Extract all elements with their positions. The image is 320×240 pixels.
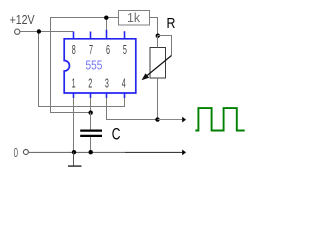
wire 1k right to pot junction [150, 18, 158, 36]
0V arrowhead [182, 150, 186, 156]
junction at pin 6 column [104, 16, 108, 20]
pin 3 stub [106, 93, 108, 98]
svg-text:+12V: +12V [10, 13, 36, 27]
variable resistor R body [150, 48, 166, 79]
pin 7 stub [90, 32, 92, 39]
wire +12V rail to pin 8 [20, 31, 74, 33]
wire pin 1 to 0V rail [73, 98, 75, 153]
output arrowhead [182, 117, 186, 123]
capacitor C bottom plate [80, 135, 102, 137]
svg-text:0: 0 [14, 145, 18, 160]
wire junction column down to pin 6 [106, 18, 108, 31]
junction cap bottom rail [89, 150, 93, 154]
svg-text:C: C [112, 125, 121, 143]
pin 1 stub [73, 93, 75, 98]
junction pot top [156, 34, 160, 38]
svg-text:6: 6 [106, 42, 110, 57]
capacitor C top plate [80, 129, 102, 131]
waveform square wave [195, 108, 244, 130]
node 0V terminal [23, 150, 28, 155]
svg-text:555: 555 [86, 57, 103, 72]
svg-text:8: 8 [72, 42, 76, 57]
wire pin 2 down to cap junction [90, 98, 92, 113]
junction output [155, 117, 159, 121]
wiper arrow diagonal [147, 56, 172, 77]
pin 4 stub [124, 93, 126, 98]
pin 2 stub [90, 93, 92, 98]
pin 5 stub [124, 31, 126, 39]
pin 8 stub [73, 32, 75, 39]
resistor 1k box [119, 11, 150, 26]
wire pins 2-6 net: top run into 1k, left drop to cap [51, 18, 119, 113]
svg-text:4: 4 [122, 75, 126, 90]
junction cap top [89, 111, 93, 115]
wire cap junction to top plate [90, 113, 92, 130]
svg-text:7: 7 [89, 42, 93, 57]
wire pot top feed [157, 36, 159, 48]
node +12V terminal [15, 29, 20, 34]
junction +12V rail [37, 29, 41, 33]
wire pot bottom to output line [157, 78, 159, 120]
IC 555 body [64, 39, 136, 93]
junction ground [72, 150, 76, 154]
ground stub [73, 152, 75, 165]
wire output arrow shaft [158, 119, 183, 121]
wire cap bottom to 0V rail [90, 137, 92, 152]
svg-text:2: 2 [88, 75, 92, 90]
wire 0V arrow shaft [125, 151, 182, 153]
pin 6 stub [106, 30, 108, 39]
wiper arrowhead [142, 73, 150, 80]
wire 0V rail [29, 151, 126, 153]
svg-text:R: R [167, 15, 176, 32]
ground bar [68, 165, 82, 167]
svg-text:1k: 1k [127, 11, 141, 25]
wire junction to wiper elbow [158, 36, 172, 56]
wire +12V down then right to pin 4 [39, 32, 125, 107]
wire pin 3 output [107, 98, 158, 120]
svg-text:5: 5 [123, 42, 127, 57]
svg-text:3: 3 [105, 75, 109, 90]
svg-text:1: 1 [72, 75, 76, 90]
